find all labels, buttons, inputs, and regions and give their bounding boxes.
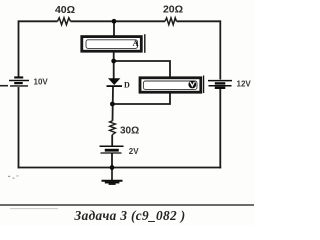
svg-text:10V: 10V — [34, 78, 49, 87]
svg-text:12V: 12V — [237, 79, 252, 88]
wire bottom — [18, 167, 222, 169]
node below diode loop — [110, 102, 115, 107]
svg-text:D: D — [124, 81, 130, 90]
scan artifact specks bottom left — [8, 175, 18, 178]
node bottom junction — [110, 165, 115, 170]
svg-text:2V: 2V — [129, 147, 139, 156]
wire top middle segment — [71, 20, 166, 22]
battery E2 12V — [208, 81, 232, 89]
svg-text:20Ω: 20Ω — [163, 4, 183, 16]
svg-text:30Ω: 30Ω — [120, 125, 139, 136]
wire middle below diode — [112, 86, 115, 121]
resistor R2 zigzag — [165, 18, 177, 25]
wire right vertical lower — [219, 89, 221, 168]
wire right vertical upper — [219, 20, 221, 79]
wire middle branch upper — [113, 21, 115, 38]
wire voltmeter loop top — [114, 61, 170, 77]
wire top left segment — [19, 20, 58, 22]
svg-text:40Ω: 40Ω — [55, 4, 75, 16]
node below ammeter — [111, 59, 116, 64]
caption separator line — [0, 204, 254, 206]
resistor R3 zigzag — [110, 121, 116, 135]
scan artifact faint line below separator — [10, 208, 58, 210]
diode D — [107, 78, 123, 87]
svg-text:Задача 3 (с9_082 ): Задача 3 (с9_082 ) — [73, 208, 185, 223]
voltmeter U2 box — [140, 76, 204, 94]
wire left vertical upper — [18, 20, 20, 76]
scan artifact dash left edge — [0, 85, 8, 87]
wire middle below ammeter — [113, 52, 115, 79]
wire top right segment — [177, 20, 221, 22]
battery E1 10V — [9, 76, 29, 86]
ground — [102, 168, 123, 185]
svg-text:A: A — [133, 38, 140, 48]
node top junction — [112, 19, 117, 24]
resistor R1 zigzag — [58, 18, 71, 25]
wire left vertical lower — [18, 87, 20, 168]
wire middle below battery 2V — [111, 153, 113, 168]
wire voltmeter loop bottom — [112, 93, 170, 105]
wire middle below resistor R3 — [111, 135, 113, 146]
ammeter U1 box — [82, 34, 145, 53]
battery E3 2V — [100, 146, 124, 153]
voltmeter letter V in circle — [188, 81, 196, 89]
